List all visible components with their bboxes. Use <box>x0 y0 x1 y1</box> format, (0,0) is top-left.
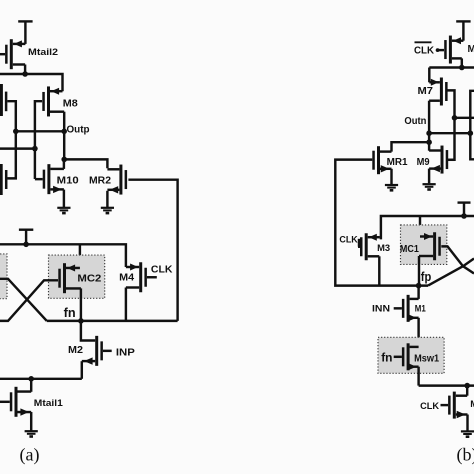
svg-text:M3: M3 <box>377 243 390 253</box>
label fn (Msw1 gate) <box>381 350 392 364</box>
svg-text:M8: M8 <box>63 99 78 110</box>
wire Outn stub to gates node <box>0 147 35 149</box>
svg-text:M: M <box>468 44 474 55</box>
wire M7 gate down <box>447 90 454 159</box>
label M3 <box>377 243 390 253</box>
dashed box MC1 <box>401 225 447 265</box>
transistor M2 <box>82 336 112 379</box>
ground M10 <box>57 208 70 213</box>
wire MR2 gate to fn <box>128 180 177 321</box>
svg-text:M: M <box>470 399 474 410</box>
label M10 <box>57 174 79 186</box>
svg-text:MR1: MR1 <box>387 157 408 168</box>
svg-text:MC2: MC2 <box>77 274 101 285</box>
svg-text:Mtail1: Mtail1 <box>34 398 64 409</box>
label M (cut, bottom right) <box>470 399 474 410</box>
svg-text:M4: M4 <box>119 273 134 284</box>
transistor M8 <box>44 86 65 131</box>
wire VDD rail (latch b) <box>381 216 474 239</box>
junction Outn drain row <box>426 139 432 145</box>
label INN <box>372 303 390 314</box>
wire Outn down <box>428 133 430 151</box>
wire MC2 source to rail <box>79 244 81 268</box>
dashed box (cut, left latch a) <box>0 254 7 299</box>
label CLKbar <box>414 42 435 56</box>
transistor MC1 <box>419 232 440 285</box>
transistor Mtail1 <box>0 379 31 431</box>
wire MR1 gate to fp row <box>335 160 428 286</box>
wire VDD rail (latch a) <box>0 244 126 267</box>
svg-text:M2: M2 <box>68 345 83 356</box>
svg-text:Mtail2: Mtail2 <box>28 47 58 58</box>
svg-text:fn: fn <box>381 350 392 364</box>
svg-text:M9: M9 <box>417 157 430 168</box>
cross-couple MC1 gate to right edge <box>441 246 474 273</box>
transistor Msw2 (CLK, cut label) <box>441 386 468 431</box>
label Mtail2 <box>28 47 58 58</box>
junction tail a <box>28 376 34 382</box>
cut-off nmos (left edge, lower) <box>1 164 6 195</box>
wire Outn row <box>429 132 470 134</box>
svg-text:fn: fn <box>64 306 76 320</box>
cross-couple wire left-gate-to-fn <box>0 279 47 321</box>
transistor M9 <box>429 146 447 184</box>
bullet CLKbar to gate <box>436 48 444 52</box>
svg-text:CLK: CLK <box>151 265 173 276</box>
label CLK (M3 gate) <box>339 235 357 246</box>
junction tail b <box>464 383 470 389</box>
wire drain row to MR2 <box>64 159 107 168</box>
wire gate row to right edge <box>455 117 474 119</box>
label M7 <box>418 86 434 97</box>
wire M9 gate <box>448 159 455 161</box>
junction Mtail2 drain <box>22 71 28 77</box>
label Mtail1 <box>34 398 64 409</box>
caption (a) <box>20 445 40 466</box>
label fp <box>421 270 432 284</box>
transistor MR2 <box>107 165 125 208</box>
junction Outn to cut pair <box>468 130 474 136</box>
svg-text:CLK: CLK <box>339 235 357 246</box>
transistor M4 <box>126 262 157 321</box>
label Msw1 <box>414 353 439 364</box>
label M4 <box>119 273 134 284</box>
svg-text:MR2: MR2 <box>89 174 111 186</box>
junction fn <box>78 318 84 324</box>
wire tail row a <box>0 378 82 380</box>
transistor Mtail (CLKbar, cut label) <box>445 36 463 68</box>
svg-text:CLK: CLK <box>420 401 439 412</box>
vdd symbol (latch b) <box>458 203 471 216</box>
svg-text:Outn: Outn <box>404 116 426 127</box>
svg-text:(b): (b) <box>457 445 474 466</box>
svg-text:Outp: Outp <box>67 123 90 135</box>
transistor M3 <box>358 233 380 285</box>
transistor M1 <box>394 286 419 347</box>
label Outn <box>404 116 426 127</box>
ground Msw2 <box>461 431 474 436</box>
label M1 <box>415 303 427 314</box>
wire cut pair gates (right edge) <box>470 91 474 160</box>
label Outp <box>67 123 90 135</box>
wire MC1 source to rail <box>419 216 421 237</box>
transistor M7 <box>429 78 446 134</box>
junction vdd rail a <box>23 242 29 248</box>
svg-text:Msw1: Msw1 <box>414 353 439 364</box>
ground MR1 <box>385 185 398 190</box>
label MR2 <box>89 174 111 186</box>
wire M8 gate to node <box>35 101 42 179</box>
transistor Msw1 <box>394 343 419 385</box>
wire drain row to MR1 <box>392 142 430 151</box>
label M2 <box>68 345 83 356</box>
transistor M10 <box>35 159 64 207</box>
junction fp <box>416 283 422 289</box>
wire Outp down to M10 drain row <box>63 131 65 159</box>
junction Outn <box>426 130 432 136</box>
label CLK (Msw2 gate) <box>420 401 439 412</box>
svg-text:M7: M7 <box>418 86 434 97</box>
label CLK (M4 gate) <box>151 265 173 276</box>
cross-couple wire fp-to-MC2 gate <box>0 280 58 321</box>
svg-text:(a): (a) <box>20 445 40 466</box>
junction left pair gates / Outp <box>13 129 19 135</box>
junction Outp to drain row <box>61 157 67 163</box>
wire fn to M2 drain <box>81 321 95 341</box>
label M8 <box>63 99 78 110</box>
wire clktail drain row b <box>429 66 474 68</box>
svg-text:INP: INP <box>116 347 135 358</box>
transistor Mtail2 <box>0 39 25 74</box>
vdd symbol (latch a) <box>19 230 33 245</box>
wire down to M7 source <box>428 68 430 83</box>
cross-couple fp row to right edge <box>428 259 474 286</box>
svg-text:INN: INN <box>372 303 390 314</box>
wire VDD row to M8 source <box>0 74 63 91</box>
vdd symbol (clk tail b) <box>456 21 470 40</box>
transistor MR1 <box>374 146 392 184</box>
dashed box MC2 <box>49 255 105 298</box>
svg-text:M10: M10 <box>57 174 79 186</box>
svg-text:M1: M1 <box>415 303 427 314</box>
junction M7 gate row <box>452 115 458 121</box>
caption (b) <box>457 445 474 466</box>
junction Outp <box>61 129 67 135</box>
svg-text:fp: fp <box>421 270 432 284</box>
ground Mtail1 <box>25 431 38 436</box>
label MC1 <box>400 244 419 255</box>
ground M9 <box>423 184 436 189</box>
label M (cut, right edge) <box>468 44 474 55</box>
svg-text:MC1: MC1 <box>400 244 419 255</box>
label fn <box>64 306 76 320</box>
wire tail row b <box>419 384 474 386</box>
wire Outp row <box>16 130 64 132</box>
ground MR2 <box>101 208 114 213</box>
junction vdd rail b <box>461 213 467 219</box>
svg-text:CLK: CLK <box>414 46 435 57</box>
label M9 <box>417 157 430 168</box>
label MC2 <box>77 274 101 285</box>
transistor MC2 <box>60 263 81 321</box>
dashed box Msw1 <box>378 337 444 373</box>
label INP <box>116 347 135 358</box>
cut-off pmos (left edge, upper) <box>1 84 15 178</box>
junction M8/M10 gates <box>32 146 38 152</box>
wire fn row <box>47 320 178 322</box>
junction clktail drain <box>459 65 465 71</box>
label MR1 <box>387 157 408 168</box>
vdd symbol (Mtail2 source) <box>18 21 32 44</box>
